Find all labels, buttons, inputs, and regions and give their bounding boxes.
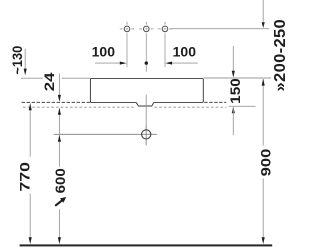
svg-text:100: 100 <box>173 44 197 60</box>
svg-text:100: 100 <box>92 44 116 60</box>
svg-text:24: 24 <box>43 72 58 91</box>
svg-text:150: 150 <box>228 78 243 104</box>
svg-text:600: 600 <box>53 168 68 193</box>
svg-text:~130: ~130 <box>9 46 24 75</box>
svg-text:770: 770 <box>18 162 33 192</box>
svg-text:900: 900 <box>259 149 274 177</box>
svg-text:»200-250: »200-250 <box>272 19 290 92</box>
